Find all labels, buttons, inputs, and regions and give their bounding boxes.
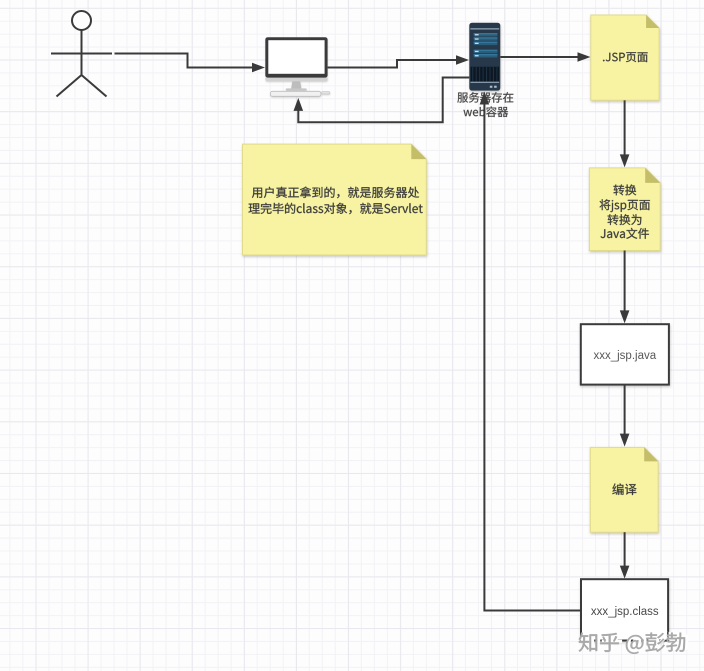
wire convert note to java box bbox=[620, 251, 630, 324]
wire actor to monitor bbox=[115, 54, 266, 73]
wire server back to monitor bbox=[294, 78, 470, 123]
monitor (computer) bbox=[265, 37, 330, 96]
server tower (web container host) bbox=[469, 23, 500, 91]
watermark 知乎 @彭勃 bbox=[579, 631, 688, 654]
note 用户真正拿到的…Servlet bbox=[243, 144, 427, 255]
wire JSP note to convert note bbox=[620, 100, 630, 167]
svg-text:xxx_jsp.java: xxx_jsp.java bbox=[593, 350, 656, 362]
svg-text:xxx_jsp.class: xxx_jsp.class bbox=[591, 606, 659, 618]
note 转换/将jsp页面/转换为/Java文件 bbox=[589, 168, 660, 251]
note .JSP页面 bbox=[591, 15, 659, 100]
box xxx_jsp.java bbox=[581, 324, 669, 384]
wire class box back to server bbox=[480, 92, 581, 611]
wire server to JSP page note bbox=[500, 52, 590, 62]
box xxx_jsp.class bbox=[581, 579, 668, 640]
wire monitor to server bbox=[328, 55, 469, 67]
note 编译 (compile) bbox=[590, 447, 658, 532]
wire java box to compile note bbox=[620, 385, 630, 447]
label 服务器存在 web容器 bbox=[457, 92, 513, 117]
actor (stick figure user) bbox=[51, 11, 112, 97]
wire compile note to class box bbox=[620, 532, 630, 578]
